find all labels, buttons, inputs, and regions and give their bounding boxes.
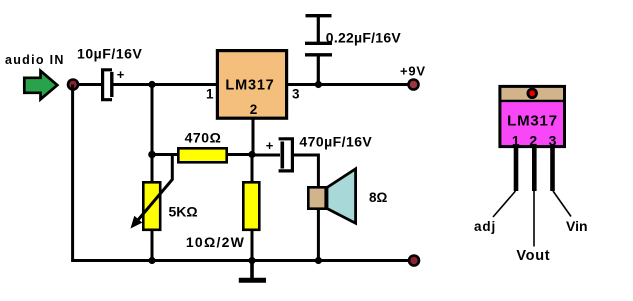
junction on rail below R3: [248, 257, 255, 264]
wire: R1 to adj junction: [227, 153, 251, 156]
node: +9V terminal: [409, 80, 419, 90]
junction node adj: [248, 151, 255, 158]
pointer line Vout: [533, 191, 535, 247]
svg-text:3: 3: [549, 133, 557, 149]
svg-text:470µF/16V: 470µF/16V: [299, 134, 372, 150]
package tab divider: [500, 100, 565, 102]
wire: pin3 to +9V node: [288, 83, 408, 86]
package pin number 2: [529, 133, 537, 149]
package leg 3: [550, 148, 555, 192]
wire: adj junction to C3: [253, 154, 280, 157]
svg-text:5KΩ: 5KΩ: [169, 204, 198, 220]
value label 10ohm/2W: [186, 234, 245, 250]
capacitor C3 470uF/16V: [279, 139, 293, 171]
wire: adj column junction to R1: [152, 153, 179, 156]
wire: pot bottom to ground rail: [151, 230, 154, 259]
wire: C3 to speaker column: [292, 154, 318, 157]
resistor R1 470 body: [178, 148, 226, 162]
wire: R3 bottom to rail: [251, 230, 254, 259]
label Vin: [566, 218, 588, 234]
label: audio IN: [5, 53, 65, 67]
svg-text:+: +: [117, 67, 125, 82]
wire: junction to pot top: [151, 156, 154, 181]
svg-text:1: 1: [512, 133, 520, 149]
C3 polarity +: [266, 138, 274, 153]
svg-text:LM317: LM317: [507, 113, 558, 130]
value label 470 ohm: [185, 130, 222, 146]
label Vout: [516, 248, 550, 264]
package mounting hole: [528, 89, 537, 98]
svg-text:10Ω/2W: 10Ω/2W: [186, 234, 245, 250]
svg-text:1: 1: [206, 87, 214, 102]
package leg 2: [532, 148, 537, 192]
capacitor C1 10uF/16V: [103, 70, 112, 100]
junction on rail below pot: [148, 257, 155, 264]
value label 8 ohm: [369, 190, 388, 205]
C1 polarity +: [117, 67, 125, 82]
IC U1 LM317 body: [217, 51, 286, 119]
package leg 1: [514, 148, 519, 192]
wire: pin2 down to adj node: [252, 118, 255, 153]
pointer line Vin: [553, 191, 571, 217]
resistor R3 10ohm body: [243, 182, 259, 230]
svg-text:2: 2: [529, 133, 537, 149]
package pin number 1: [512, 133, 520, 149]
label adj: [474, 219, 496, 234]
svg-text:audio IN: audio IN: [5, 53, 65, 67]
label +9V: [400, 63, 426, 78]
wire: C1 to node A: [114, 83, 218, 86]
wire: adj junction to R3 top: [251, 156, 254, 181]
junction node R1 left: [148, 151, 156, 159]
value label 5KOhm: [169, 204, 198, 220]
wire: speaker column: [317, 154, 320, 260]
package label LM317: [507, 113, 558, 130]
package U1 tab: [501, 88, 564, 101]
junction node at C2: [315, 81, 322, 88]
value label 0.22uF/16V: [326, 29, 402, 45]
wire: node A down to R1 row: [151, 85, 154, 154]
ground symbol: [239, 261, 266, 281]
IC U1 label LM317: [225, 78, 274, 94]
junction on rail below speaker: [315, 257, 322, 264]
wire: ground rail: [73, 85, 409, 261]
value label 10uF/16V: [77, 46, 143, 62]
package U1 body: [501, 101, 564, 147]
wire: pot wiper arm: [138, 155, 172, 220]
pot wiper arrowhead: [131, 216, 143, 229]
potentiometer R2 5K body: [143, 182, 160, 230]
svg-text:2: 2: [250, 102, 258, 117]
wire: input node to C1: [78, 83, 102, 86]
svg-text:8Ω: 8Ω: [369, 190, 388, 205]
svg-text:0.22µF/16V: 0.22µF/16V: [326, 29, 402, 45]
package pin number 3: [549, 133, 557, 149]
pointer line adj: [493, 191, 516, 217]
svg-text:+: +: [266, 138, 274, 153]
pin number 1: [206, 87, 214, 102]
speaker LS1 cone: [327, 169, 356, 223]
package outline: [500, 86, 565, 146]
speaker LS1 driver box: [308, 187, 325, 208]
audio input arrow: [24, 71, 57, 100]
svg-text:10µF/16V: 10µF/16V: [77, 46, 143, 62]
svg-text:3: 3: [292, 87, 300, 102]
pin number 3: [292, 87, 300, 102]
node: audio input terminal: [68, 80, 78, 90]
svg-text:LM317: LM317: [225, 78, 274, 94]
junction node A: [148, 81, 155, 88]
pin number 2: [250, 102, 258, 117]
svg-text:+9V: +9V: [400, 63, 426, 78]
node: negative supply terminal: [409, 256, 419, 266]
svg-text:adj: adj: [474, 219, 496, 234]
svg-text:Vin: Vin: [566, 218, 588, 234]
capacitor C2 0.22uF: [305, 16, 332, 85]
svg-text:Vout: Vout: [516, 248, 550, 264]
value label 470uF/16V: [299, 134, 372, 150]
svg-text:470Ω: 470Ω: [185, 130, 222, 146]
